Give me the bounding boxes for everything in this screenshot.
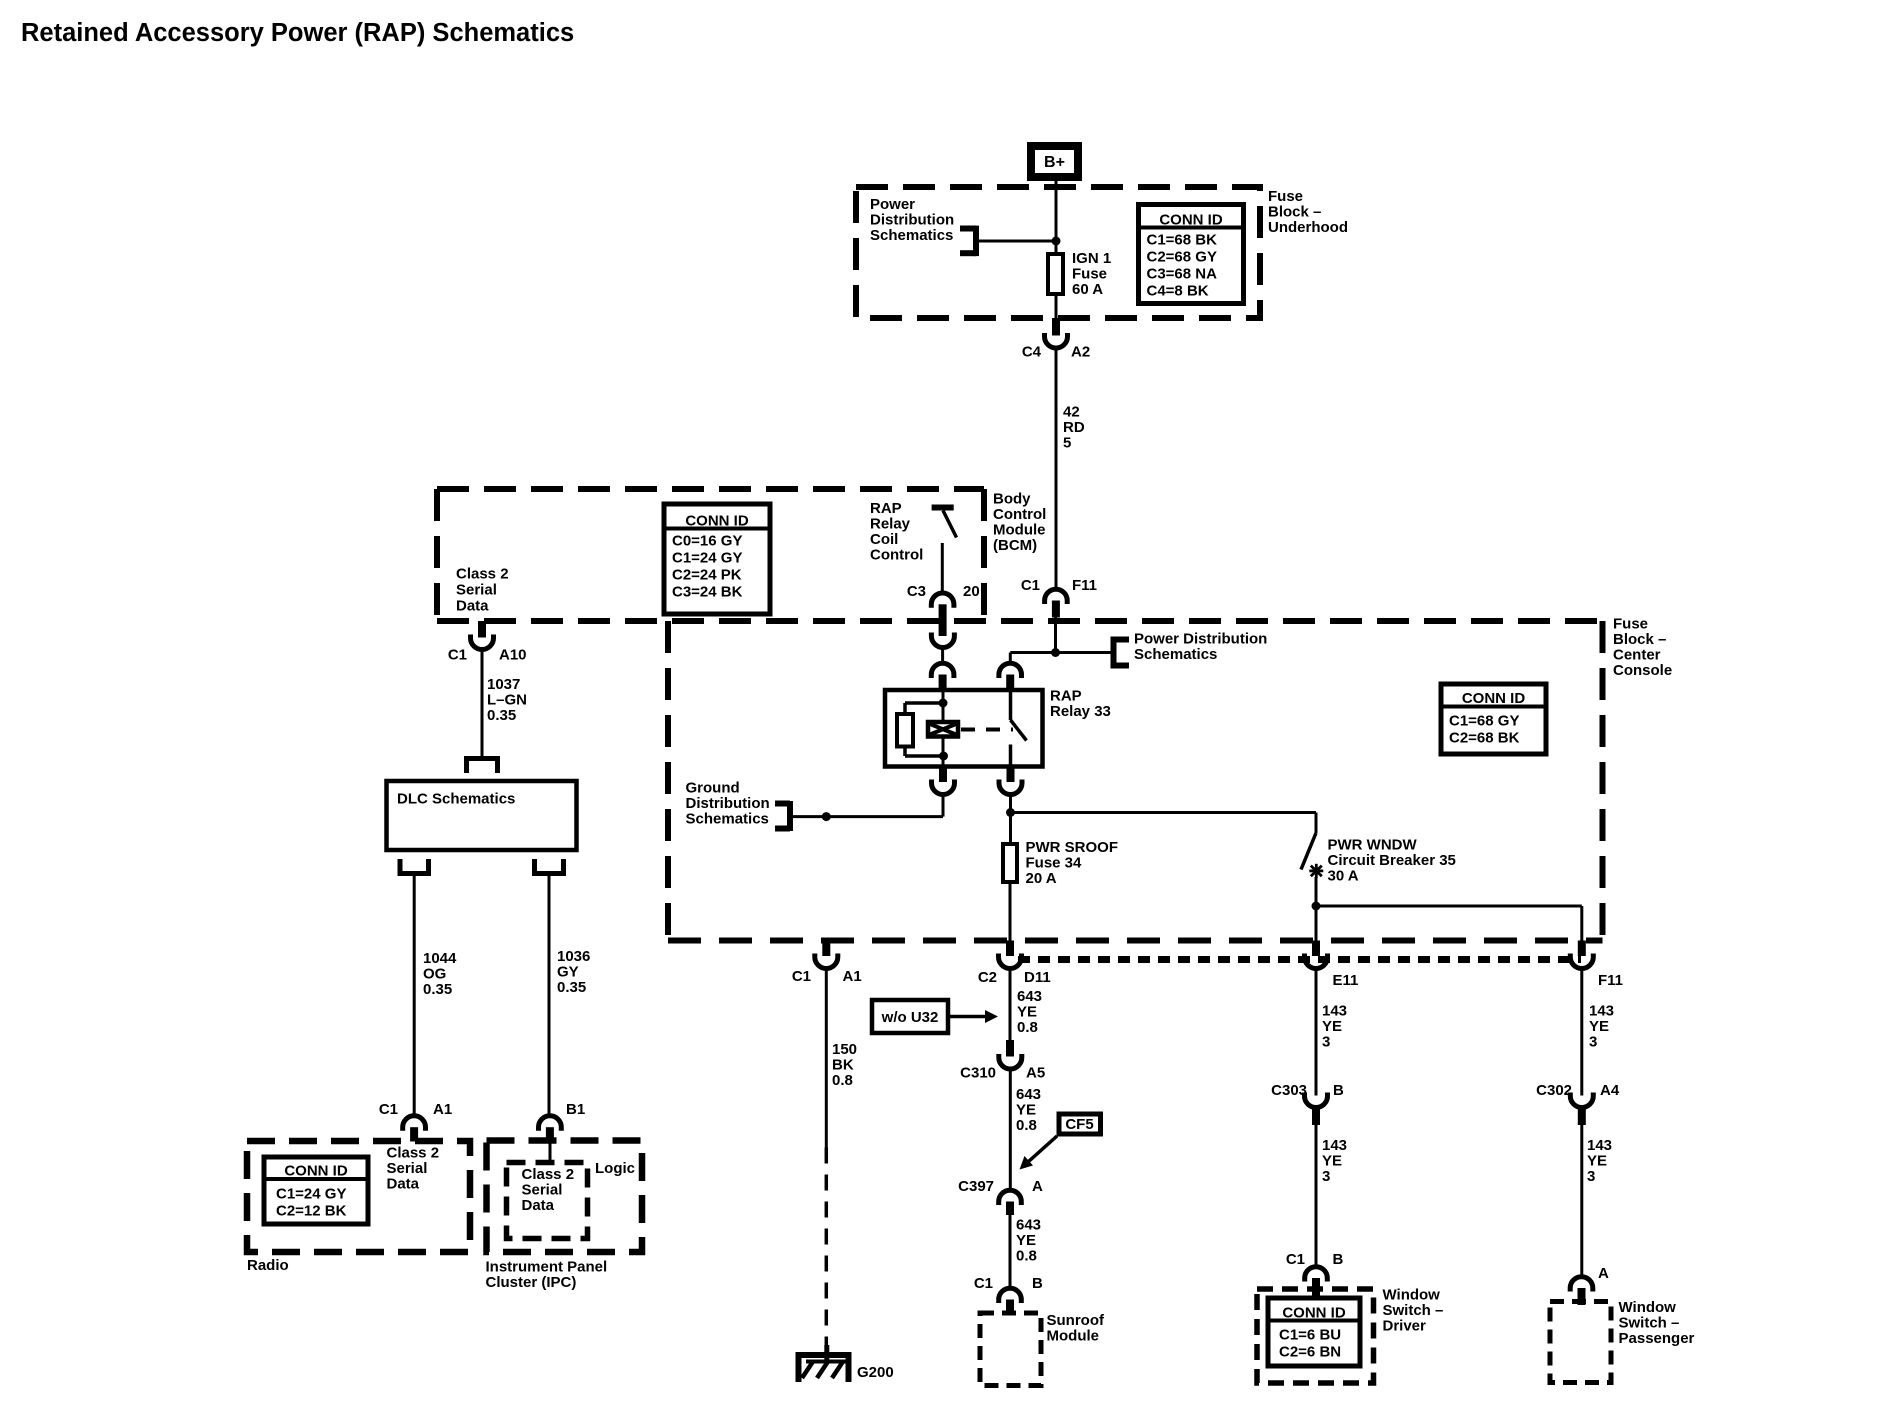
connector B1 (IPC) bbox=[539, 1116, 562, 1131]
wire fuse to connector C4 bbox=[1055, 294, 1058, 319]
svg-text:C1: C1 bbox=[448, 647, 467, 664]
relay switch contact bbox=[1009, 692, 1013, 720]
RAP relay coil control switch inside BCM bbox=[932, 505, 954, 511]
fuse block center console dashed box bbox=[665, 621, 671, 941]
svg-text:Relay 33: Relay 33 bbox=[1050, 703, 1111, 720]
svg-text:Instrument Panel: Instrument Panel bbox=[486, 1259, 608, 1276]
svg-text:3: 3 bbox=[1322, 1034, 1330, 1051]
svg-text:C303: C303 bbox=[1271, 1082, 1307, 1099]
svg-text:C1: C1 bbox=[379, 1101, 398, 1118]
wire switch to C3 bbox=[941, 543, 944, 594]
wire B1 into logic block bbox=[549, 1142, 552, 1163]
svg-text:Retained Accessory Power (RAP): Retained Accessory Power (RAP) Schematic… bbox=[21, 19, 574, 47]
svg-text:Sunroof: Sunroof bbox=[1047, 1312, 1105, 1329]
svg-text:Class 2: Class 2 bbox=[387, 1145, 440, 1162]
wire bracket to junction bbox=[790, 815, 826, 818]
junction node at B+ feed bbox=[1052, 237, 1061, 246]
junction node relay feed bbox=[1051, 648, 1060, 657]
class 2 serial data logic dashed box bbox=[507, 1163, 588, 1239]
svg-text:Serial: Serial bbox=[522, 1182, 563, 1199]
svg-text:PWR WNDW: PWR WNDW bbox=[1328, 837, 1418, 854]
wire junction to F11 bbox=[1316, 905, 1582, 908]
svg-text:A1: A1 bbox=[843, 968, 862, 985]
svg-text:C1=6 BU: C1=6 BU bbox=[1279, 1327, 1341, 1344]
wire junction to fuse 34 bbox=[1009, 813, 1012, 845]
wire relay output to junction bbox=[1009, 795, 1012, 813]
svg-text:Passenger: Passenger bbox=[1619, 1330, 1695, 1347]
wire breaker to junction bbox=[1315, 877, 1318, 906]
callout box CF5 bbox=[1059, 1114, 1101, 1134]
svg-text:Data: Data bbox=[387, 1176, 420, 1193]
svg-text:143: 143 bbox=[1322, 1003, 1347, 1020]
svg-text:C2=24 PK: C2=24 PK bbox=[672, 567, 742, 584]
svg-text:Distribution: Distribution bbox=[686, 795, 770, 812]
svg-text:D11: D11 bbox=[1024, 969, 1051, 986]
relay coil winding symbol bbox=[926, 720, 960, 739]
svg-text:643: 643 bbox=[1016, 1217, 1041, 1234]
circuit breaker blade bbox=[1301, 833, 1316, 870]
connector E11 bbox=[1312, 941, 1320, 957]
svg-text:Logic: Logic bbox=[595, 1160, 635, 1177]
CONN ID table underhood bbox=[1139, 205, 1244, 304]
svg-text:Control: Control bbox=[870, 547, 923, 564]
svg-text:Module: Module bbox=[1047, 1328, 1100, 1345]
svg-text:(BCM): (BCM) bbox=[993, 537, 1037, 554]
svg-text:Schematics: Schematics bbox=[1134, 646, 1217, 663]
connector C2 D11 bbox=[1006, 941, 1014, 957]
svg-text:L–GN: L–GN bbox=[487, 692, 527, 709]
svg-text:Fuse: Fuse bbox=[1072, 266, 1107, 283]
svg-text:E11: E11 bbox=[1333, 972, 1359, 989]
svg-text:Data: Data bbox=[456, 598, 489, 615]
DLC output bracket left bbox=[400, 859, 429, 874]
svg-text:A1: A1 bbox=[433, 1101, 452, 1118]
svg-text:Distribution: Distribution bbox=[870, 212, 954, 229]
fuse IGN 1 60 A bbox=[1048, 254, 1063, 294]
svg-text:C3=24 BK: C3=24 BK bbox=[672, 584, 743, 601]
junction node coil top bbox=[939, 699, 948, 708]
svg-text:C1=24 GY: C1=24 GY bbox=[672, 550, 742, 567]
svg-text:A2: A2 bbox=[1071, 344, 1090, 361]
relay pin 30 connector (switched output) bbox=[1007, 767, 1015, 783]
junction node ground branch bbox=[822, 812, 831, 821]
svg-text:PWR SROOF: PWR SROOF bbox=[1026, 839, 1119, 856]
wire junction to power distribution bracket bbox=[1056, 651, 1114, 654]
relay suppression resistor bbox=[905, 701, 943, 705]
svg-text:0.8: 0.8 bbox=[1016, 1117, 1037, 1134]
fuse block underhood dashed box bbox=[856, 187, 1260, 318]
relay coil feed wire bbox=[942, 692, 945, 720]
svg-text:Coil: Coil bbox=[870, 531, 898, 548]
svg-text:OG: OG bbox=[423, 966, 446, 983]
svg-text:Data: Data bbox=[522, 1197, 555, 1214]
radio dashed box bbox=[247, 1141, 470, 1252]
wire 1044 OG to radio bbox=[413, 876, 416, 1117]
svg-text:YE: YE bbox=[1017, 1004, 1037, 1021]
svg-text:143: 143 bbox=[1589, 1003, 1614, 1020]
svg-text:150: 150 bbox=[832, 1041, 857, 1058]
wire F11 to C302 bbox=[1580, 969, 1583, 1096]
svg-text:C4=8 BK: C4=8 BK bbox=[1147, 283, 1209, 300]
svg-text:C0=16 GY: C0=16 GY bbox=[672, 533, 742, 550]
svg-text:643: 643 bbox=[1017, 988, 1042, 1005]
svg-text:YE: YE bbox=[1589, 1018, 1609, 1035]
svg-text:CONN ID: CONN ID bbox=[1462, 690, 1526, 707]
svg-text:Fuse 34: Fuse 34 bbox=[1026, 855, 1083, 872]
svg-text:42: 42 bbox=[1063, 404, 1080, 421]
arrow CF5 to wire bbox=[1028, 1136, 1057, 1162]
connector C1 A10 bbox=[478, 621, 486, 638]
arrow w/o U32 to wire bbox=[948, 1015, 987, 1019]
junction node breaker output bbox=[1312, 902, 1321, 911]
svg-text:A5: A5 bbox=[1026, 1065, 1045, 1082]
box DLC Schematics bbox=[387, 781, 577, 850]
wire relay coil ground bbox=[942, 795, 945, 817]
svg-text:Block –: Block – bbox=[1613, 631, 1666, 648]
svg-text:643: 643 bbox=[1016, 1086, 1041, 1103]
svg-text:Module: Module bbox=[993, 522, 1046, 539]
junction node coil bottom bbox=[939, 752, 948, 761]
svg-text:YE: YE bbox=[1016, 1232, 1036, 1249]
CONN ID table BCM bbox=[664, 504, 770, 614]
DLC input bracket bbox=[467, 759, 498, 774]
fuse PWR SROOF Fuse 34 20 A bbox=[1003, 844, 1017, 882]
bracket to Power Distribution Schematics bbox=[973, 226, 979, 257]
svg-text:Class 2: Class 2 bbox=[522, 1166, 575, 1183]
sunroof module dashed box bbox=[980, 1313, 1041, 1386]
bracket to Ground Distribution Schematics bbox=[787, 801, 793, 831]
inline connector below C3 bbox=[931, 633, 954, 648]
svg-text:0.35: 0.35 bbox=[487, 707, 516, 724]
svg-text:YE: YE bbox=[1587, 1153, 1607, 1170]
svg-text:C1=24 GY: C1=24 GY bbox=[276, 1186, 346, 1203]
dotted connector row line bbox=[1018, 956, 1581, 963]
svg-text:B1: B1 bbox=[566, 1101, 585, 1118]
wire D11 to C310 bbox=[1009, 969, 1012, 1040]
svg-text:RAP: RAP bbox=[870, 500, 902, 517]
connector A (passenger switch) bbox=[1570, 1277, 1593, 1292]
svg-text:3: 3 bbox=[1589, 1034, 1597, 1051]
window switch passenger dashed box bbox=[1550, 1302, 1611, 1383]
callout box w/o U32 bbox=[872, 1000, 948, 1033]
svg-text:B: B bbox=[1032, 1275, 1043, 1292]
svg-text:YE: YE bbox=[1322, 1018, 1342, 1035]
svg-text:3: 3 bbox=[1587, 1168, 1595, 1185]
svg-text:C1: C1 bbox=[974, 1275, 993, 1292]
svg-text:CONN ID: CONN ID bbox=[1282, 1305, 1346, 1322]
wire C303 to driver switch bbox=[1315, 1125, 1318, 1267]
CONN ID table driver switch bbox=[1268, 1298, 1360, 1366]
svg-text:CONN ID: CONN ID bbox=[284, 1163, 348, 1180]
svg-text:0.8: 0.8 bbox=[832, 1072, 853, 1089]
connector C1 F11 (BCM output) bbox=[1045, 589, 1068, 604]
connector C3 pin 20 bbox=[931, 593, 954, 608]
connector C4 A2 bbox=[1052, 318, 1060, 336]
wire C1 F11 to junction bbox=[1054, 618, 1057, 653]
svg-text:C2=68 BK: C2=68 BK bbox=[1449, 730, 1520, 747]
svg-text:Driver: Driver bbox=[1383, 1318, 1427, 1335]
svg-text:Control: Control bbox=[993, 506, 1046, 523]
svg-text:A: A bbox=[1598, 1265, 1609, 1282]
svg-text:IGN 1: IGN 1 bbox=[1072, 250, 1111, 267]
wire B+ to IGN 1 fuse bbox=[1055, 181, 1058, 253]
connector C1 B (driver switch) bbox=[1305, 1267, 1328, 1282]
svg-text:20: 20 bbox=[963, 583, 980, 600]
svg-text:w/o U32: w/o U32 bbox=[881, 1009, 939, 1026]
svg-text:A4: A4 bbox=[1600, 1082, 1620, 1099]
wire junction to E11 bbox=[1315, 906, 1318, 941]
svg-text:Serial: Serial bbox=[387, 1160, 428, 1177]
bracket to Power Distribution Schematics (relay) bbox=[1111, 637, 1117, 669]
svg-text:A10: A10 bbox=[499, 647, 527, 664]
relay switch pin connector bbox=[999, 663, 1022, 678]
svg-text:Switch –: Switch – bbox=[1619, 1315, 1680, 1332]
svg-text:0.8: 0.8 bbox=[1017, 1019, 1038, 1036]
svg-text:C2=12 BK: C2=12 BK bbox=[276, 1203, 347, 1220]
window switch driver dashed box bbox=[1257, 1289, 1374, 1383]
svg-text:C1: C1 bbox=[1021, 577, 1040, 594]
svg-text:GY: GY bbox=[557, 964, 579, 981]
svg-text:BK: BK bbox=[832, 1057, 854, 1074]
circuit breaker PWR WNDW 35 feed bbox=[1315, 813, 1318, 834]
svg-text:C310: C310 bbox=[960, 1065, 996, 1082]
svg-text:Center: Center bbox=[1613, 647, 1661, 664]
svg-text:C3=68 NA: C3=68 NA bbox=[1147, 266, 1218, 283]
svg-text:Window: Window bbox=[1383, 1287, 1441, 1304]
CONN ID table radio bbox=[264, 1157, 368, 1224]
relay RAP Relay 33 box bbox=[885, 690, 1043, 767]
svg-text:Class 2: Class 2 bbox=[456, 566, 509, 583]
svg-text:Console: Console bbox=[1613, 662, 1672, 679]
wire 150 BK to ground bbox=[825, 969, 828, 1148]
wire C302 to passenger switch bbox=[1580, 1125, 1583, 1277]
connector C1 A1 (console ground out) bbox=[822, 941, 830, 957]
svg-text:C1=68 BK: C1=68 BK bbox=[1147, 232, 1218, 249]
svg-text:C2: C2 bbox=[978, 969, 997, 986]
svg-text:C397: C397 bbox=[958, 1178, 994, 1195]
svg-text:C1=68 GY: C1=68 GY bbox=[1449, 713, 1519, 730]
connector C302 A4 bbox=[1570, 1093, 1593, 1108]
svg-text:C302: C302 bbox=[1536, 1082, 1572, 1099]
svg-text:0.8: 0.8 bbox=[1016, 1248, 1037, 1265]
svg-text:1036: 1036 bbox=[557, 948, 590, 965]
wire E11 to C303 bbox=[1315, 969, 1318, 1096]
svg-text:0.35: 0.35 bbox=[557, 979, 586, 996]
svg-text:RD: RD bbox=[1063, 419, 1085, 436]
body control module dashed box bbox=[437, 486, 984, 492]
svg-text:G200: G200 bbox=[857, 1364, 894, 1381]
wire junction to relay switch pin bbox=[1010, 651, 1055, 654]
svg-text:5: 5 bbox=[1063, 435, 1071, 452]
connector F11 bbox=[1578, 941, 1586, 957]
svg-text:Circuit Breaker 35: Circuit Breaker 35 bbox=[1328, 852, 1456, 869]
svg-text:Radio: Radio bbox=[247, 1257, 289, 1274]
wire C310 to C397 bbox=[1009, 1070, 1012, 1191]
svg-text:0.35: 0.35 bbox=[423, 981, 452, 998]
svg-text:DLC Schematics: DLC Schematics bbox=[397, 791, 515, 808]
svg-text:YE: YE bbox=[1322, 1153, 1342, 1170]
svg-text:F11: F11 bbox=[1598, 972, 1623, 989]
shared dashed boundary BCM bottom / fuse block top bbox=[437, 618, 1603, 624]
svg-text:Switch –: Switch – bbox=[1383, 1302, 1444, 1319]
svg-text:B: B bbox=[1333, 1251, 1344, 1268]
svg-text:C4: C4 bbox=[1022, 344, 1042, 361]
svg-text:1044: 1044 bbox=[423, 950, 457, 967]
svg-text:Block –: Block – bbox=[1268, 204, 1321, 221]
svg-text:B+: B+ bbox=[1044, 154, 1065, 171]
wire 1036 GY to IPC bbox=[548, 876, 551, 1117]
svg-text:Power: Power bbox=[870, 196, 915, 213]
svg-text:Ground: Ground bbox=[686, 780, 740, 797]
svg-text:CF5: CF5 bbox=[1065, 1116, 1093, 1133]
junction node relay output bbox=[1006, 808, 1015, 817]
svg-text:RAP: RAP bbox=[1050, 688, 1082, 705]
svg-text:Relay: Relay bbox=[870, 516, 911, 533]
svg-text:CONN ID: CONN ID bbox=[1159, 212, 1223, 229]
svg-text:A: A bbox=[1032, 1178, 1043, 1195]
svg-text:1037: 1037 bbox=[487, 676, 520, 693]
wire 1037 L-GN bbox=[481, 650, 484, 757]
svg-text:143: 143 bbox=[1322, 1137, 1347, 1154]
connector C397 A bbox=[999, 1190, 1022, 1205]
svg-text:3: 3 bbox=[1322, 1168, 1330, 1185]
wire junction to circuit breaker 35 bbox=[1011, 811, 1317, 814]
relay actuator dashed link bbox=[961, 728, 1013, 732]
svg-text:Power Distribution: Power Distribution bbox=[1134, 631, 1267, 648]
ground G200 symbol bbox=[824, 1345, 829, 1360]
instrument panel cluster dashed box bbox=[487, 1141, 643, 1253]
svg-text:YE: YE bbox=[1016, 1102, 1036, 1119]
svg-text:30 A: 30 A bbox=[1328, 868, 1359, 885]
hidden wire to G200 (dashed) bbox=[825, 1148, 829, 1349]
wire 42 RD 5 to BCM bbox=[1055, 348, 1058, 590]
relay pin 86 connector (coil ground) bbox=[939, 767, 947, 783]
svg-text:C2=68 GY: C2=68 GY bbox=[1147, 249, 1217, 266]
connector C1 A1 (radio) bbox=[403, 1116, 426, 1131]
svg-text:C3: C3 bbox=[907, 583, 926, 600]
svg-text:Schematics: Schematics bbox=[686, 811, 769, 828]
wire fuse 34 to connector D11 bbox=[1009, 882, 1012, 941]
svg-text:C1: C1 bbox=[1286, 1251, 1305, 1268]
DLC output bracket right bbox=[535, 859, 564, 874]
svg-text:CONN ID: CONN ID bbox=[685, 513, 749, 530]
wire C397 to sunroof module bbox=[1009, 1215, 1012, 1289]
svg-text:20 A: 20 A bbox=[1026, 870, 1057, 887]
connector C303 B bbox=[1305, 1093, 1328, 1108]
svg-text:Schematics: Schematics bbox=[870, 227, 953, 244]
wire coil to relay bottom bbox=[942, 739, 945, 765]
svg-text:Serial: Serial bbox=[456, 582, 497, 599]
svg-text:C1: C1 bbox=[792, 968, 811, 985]
svg-text:Fuse: Fuse bbox=[1268, 188, 1303, 205]
svg-text:60 A: 60 A bbox=[1072, 281, 1103, 298]
svg-text:Underhood: Underhood bbox=[1268, 219, 1348, 236]
svg-text:Fuse: Fuse bbox=[1613, 616, 1648, 633]
connector C1 B (sunroof) bbox=[999, 1288, 1022, 1303]
CONN ID table console bbox=[1441, 684, 1546, 754]
svg-text:F11: F11 bbox=[1072, 577, 1097, 594]
svg-text:Body: Body bbox=[993, 491, 1031, 508]
svg-text:143: 143 bbox=[1587, 1137, 1612, 1154]
circuit breaker sparkle symbol bbox=[1311, 866, 1322, 877]
connector C310 A5 bbox=[1006, 1040, 1014, 1057]
svg-text:C2=6 BN: C2=6 BN bbox=[1279, 1344, 1341, 1361]
wire bracket to B+ feed bbox=[976, 240, 1056, 243]
svg-text:Window: Window bbox=[1619, 1299, 1677, 1316]
svg-text:B: B bbox=[1333, 1082, 1344, 1099]
power feed B+ terminal box bbox=[1031, 146, 1078, 177]
svg-text:Cluster (IPC): Cluster (IPC) bbox=[486, 1274, 577, 1291]
